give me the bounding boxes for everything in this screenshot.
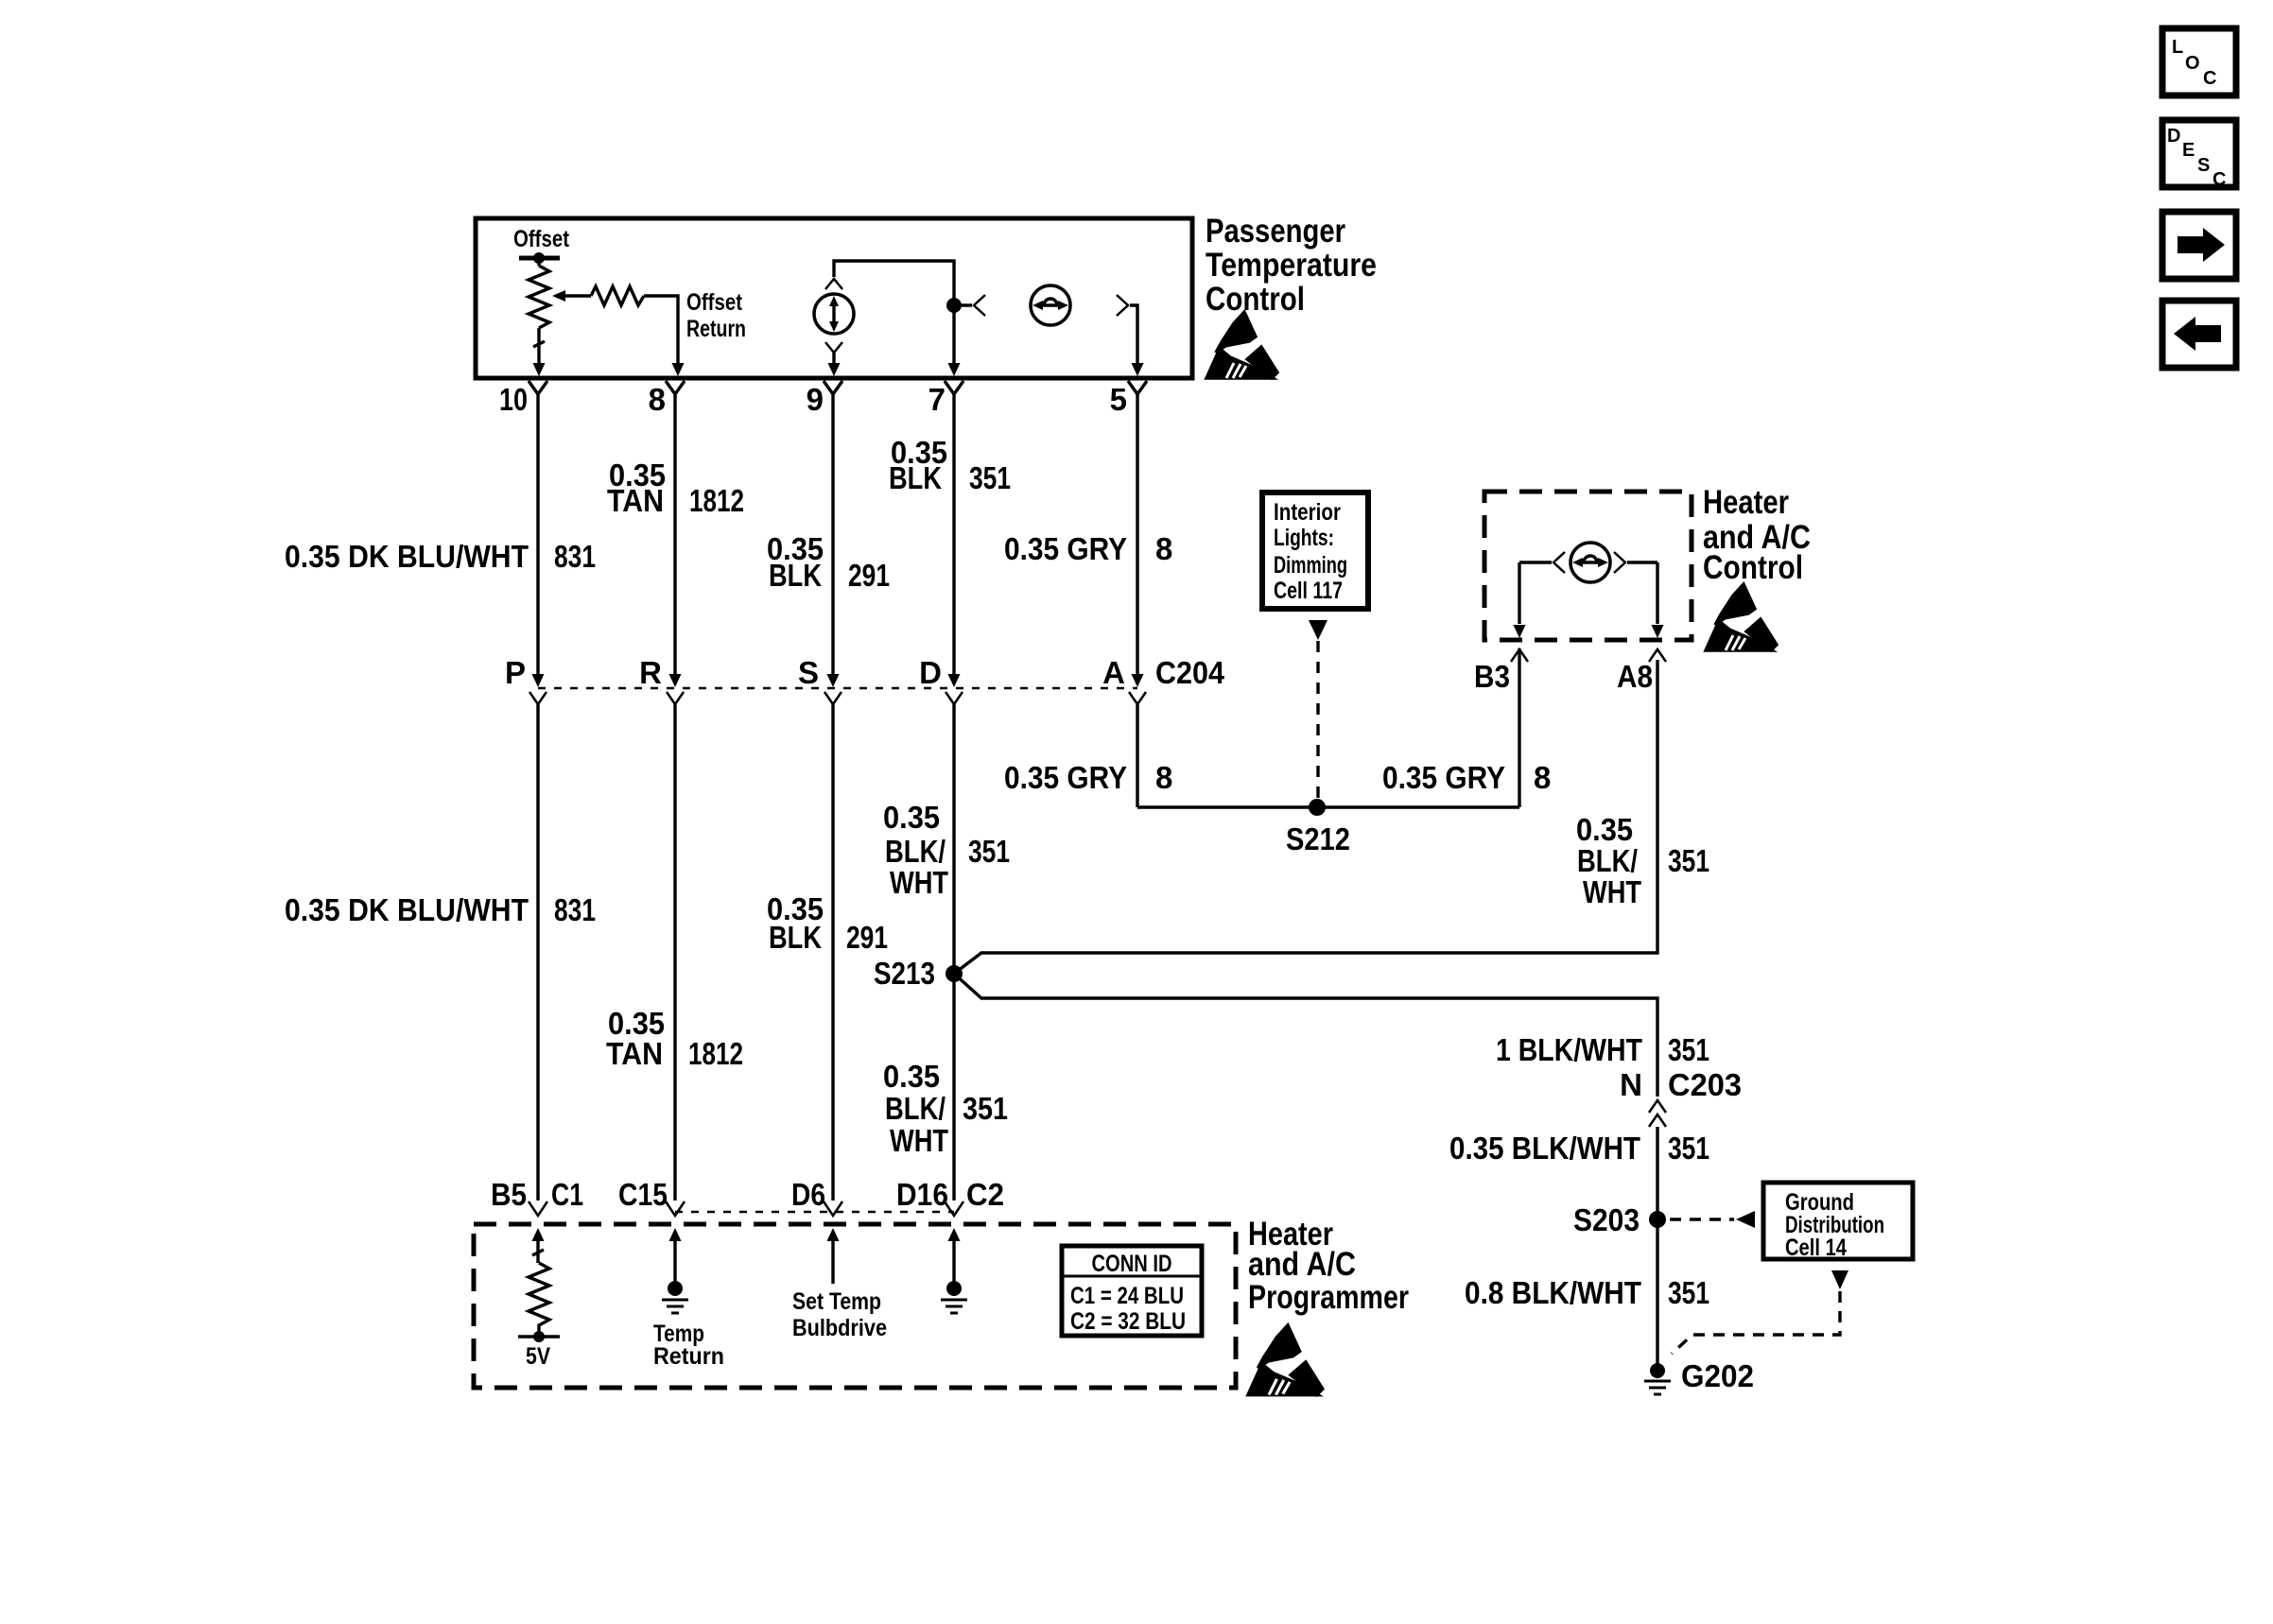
B5 arrow inside programmer box pointing up [532,1228,545,1241]
sensor U2 circle (heater a/c control pot) [1570,543,1610,582]
svg-text:Passenger: Passenger [1206,213,1345,250]
internal bracket wire from lamp to wire7 [834,261,954,292]
wire 7 run C204 to programmer D16 through S213 [952,704,955,1201]
LOC button box [2162,28,2236,95]
programmer pin chevron B5 [529,1201,547,1216]
wire 10 run to C204 [536,394,539,676]
svg-text:0.35: 0.35 [1576,812,1633,847]
sensor U1 circle (passenger temp pot) [1031,285,1070,325]
svg-text:BLK: BLK [769,558,822,593]
svg-text:WHT: WHT [890,1123,948,1158]
svg-text:O: O [2185,53,2200,74]
DESC button box [2162,120,2236,187]
ESD symbol heater and a/c programmer [1248,1325,1323,1395]
wiper arrow of potentiometer [556,294,591,297]
svg-text:10: 10 [499,382,528,417]
arrow pointing left toward S203 [1736,1211,1755,1228]
svg-text:BLK: BLK [769,920,822,955]
B3 arrow inside control box pointing down [1518,562,1520,624]
svg-text:BLK/: BLK/ [1577,843,1638,878]
horizontal double arrow with bump inside sensor U1 [1037,299,1064,305]
svg-text:Offset: Offset [513,226,570,252]
arrowhead wire10 at box bottom [533,363,546,376]
5V bar with node [518,1335,560,1338]
svg-text:5V: 5V [526,1343,550,1370]
svg-text:C1 = 24 BLU: C1 = 24 BLU [1070,1283,1184,1309]
right chevron of sensor U2 [1614,552,1625,573]
svg-text:Return: Return [686,316,746,342]
wire: resistor R2 to corner and down to box bottom [644,296,678,371]
svg-text:Set Temp: Set Temp [792,1288,881,1315]
svg-text:C: C [2212,169,2226,190]
svg-text:B3: B3 [1474,659,1510,694]
programmer pin chevron D6 [824,1201,842,1216]
ESD symbol passenger temperature control [1206,312,1277,378]
svg-text:351: 351 [963,1091,1008,1126]
svg-text:291: 291 [846,920,888,955]
left chevron of sensor U2 [1553,552,1565,573]
svg-text:C15: C15 [618,1177,668,1212]
svg-text:0.35: 0.35 [883,1059,940,1094]
svg-text:C1: C1 [551,1177,583,1212]
svg-text:D: D [919,655,942,690]
vertical double arrow inside lamp [832,302,835,326]
svg-text:8: 8 [649,382,666,417]
svg-text:8: 8 [1155,531,1172,566]
svg-text:A8: A8 [1617,659,1653,694]
wire: bar to resistor R1 [537,258,540,266]
svg-text:0.35 DK BLU/WHT: 0.35 DK BLU/WHT [285,539,529,574]
CONN ID box [1062,1246,1202,1336]
svg-text:G202: G202 [1681,1358,1754,1393]
S212 horizontal wire [1137,805,1519,808]
arrow below ground distribution box pointing down [1831,1270,1848,1289]
dashed drop from interior lights box to S212 [1316,641,1319,802]
B3 riser wire [1518,648,1520,807]
svg-text:P: P [505,655,526,690]
svg-text:351: 351 [1668,1032,1709,1067]
svg-text:0.35 GRY: 0.35 GRY [1382,760,1505,795]
svg-text:Cell 117: Cell 117 [1274,578,1343,604]
svg-text:C203: C203 [1668,1067,1742,1102]
svg-text:1812: 1812 [688,1036,743,1071]
resistor R2 horizontal zigzag (offset return) [591,286,644,305]
ground symbol D16 [946,1281,962,1296]
S213 upper branch diagonal and horizontal to A8 drop [954,660,1657,974]
svg-text:0.35 GRY: 0.35 GRY [1004,531,1127,566]
svg-text:Bulbdrive: Bulbdrive [792,1315,887,1341]
svg-text:BLK/: BLK/ [885,834,946,869]
svg-text:Dimming: Dimming [1274,552,1347,579]
potentiometer top bar with node [519,256,560,261]
C15 arrow inside programmer box pointing up (temp return) [669,1228,682,1241]
svg-text:Cell 14: Cell 14 [1785,1235,1847,1261]
svg-text:S203: S203 [1573,1202,1640,1237]
A8 chevron below control box [1649,649,1666,662]
lamp/actuator circle on wire 9 [814,294,854,334]
svg-text:5: 5 [1110,382,1127,417]
svg-text:Programmer: Programmer [1248,1279,1409,1316]
Heater and A/C Control dashed box [1484,492,1692,640]
svg-text:N: N [1620,1067,1642,1102]
left arrow button box [2162,301,2236,368]
D6 arrow inside programmer box pointing up (set temp bulbdrive) [827,1228,840,1241]
resistor R3 to 5V [529,1263,549,1337]
chevron above lamp [825,279,842,289]
svg-text:9: 9 [807,382,824,417]
svg-text:S: S [798,655,819,690]
arrowhead wire8 at box bottom [672,363,685,376]
svg-text:Control: Control [1206,281,1305,318]
ground symbol temp return [668,1281,683,1296]
svg-text:C2: C2 [966,1177,1004,1212]
svg-text:D: D [2167,126,2180,147]
wire C203 to S203 to G202 [1656,1127,1658,1365]
left arrow icon [2174,317,2221,351]
C204 chevrons below dashed line [529,692,547,704]
dashed path from ground distribution box to G202 [1672,1291,1840,1354]
svg-text:Return: Return [653,1343,724,1370]
connector C204 dashed row [538,687,1137,690]
ground G202 [1650,1363,1665,1378]
svg-text:D6: D6 [791,1177,825,1212]
svg-text:351: 351 [1668,1131,1709,1166]
wire 7 inside box with junction [952,292,955,371]
resistor R1 vertical zigzag (potentiometer element) [529,266,549,328]
svg-text:0.35: 0.35 [883,800,940,835]
splice S203 node [1649,1211,1666,1228]
wire from sensor U1 to pin5 drop [1130,305,1137,371]
C203 in-line connector double chevron [1649,1100,1666,1127]
svg-text:0.35 DK BLU/WHT: 0.35 DK BLU/WHT [285,892,529,927]
pin Y connector wire5 [1128,381,1147,394]
svg-text:8: 8 [1534,760,1551,795]
svg-text:7: 7 [928,382,946,417]
wire B3 to sensor U2 [1519,561,1552,563]
wire 9 from lamp to box bottom [832,353,835,371]
svg-text:C: C [2203,68,2216,89]
wire 7 run to C204 [952,394,955,676]
svg-text:Interior: Interior [1274,499,1341,526]
svg-text:Lights:: Lights: [1274,525,1334,551]
programmer pin chevron D16 [945,1201,963,1216]
svg-text:TAN: TAN [607,483,664,518]
svg-text:WHT: WHT [890,865,948,900]
ESD symbol heater and a/c control [1706,584,1777,650]
Heater and A/C Programmer dashed box [474,1224,1236,1388]
S213 lower branch diagonal and horizontal to C203 drop [954,974,1657,1097]
svg-text:TAN: TAN [606,1036,663,1071]
pin Y connector wire9 [824,381,842,394]
svg-text:831: 831 [554,892,596,927]
svg-text:R: R [639,655,662,690]
svg-text:E: E [2182,140,2195,161]
D16 arrow inside programmer box pointing up [948,1228,961,1241]
S203 dashed reference line [1670,1218,1734,1220]
svg-text:S213: S213 [874,956,935,991]
right arrow icon [2178,228,2225,262]
A8 arrow inside control box pointing down [1656,562,1658,624]
wire 10 run C204 to programmer B5 [536,704,539,1201]
wire 8 run C204 to programmer C15 [673,704,676,1201]
svg-text:BLK/: BLK/ [885,1091,946,1126]
chevron below lamp [825,342,842,353]
svg-text:BLK: BLK [889,460,942,495]
wire 5 drop below C204 to S212 line [1136,704,1138,807]
arrowhead wire5 at box bottom [1132,363,1144,376]
wire 8 run to C204 [673,394,676,676]
wire: resistor to box bottom with tick [533,328,545,371]
svg-text:0.35 GRY: 0.35 GRY [1004,760,1127,795]
svg-text:WHT: WHT [1583,874,1641,909]
left chevron of sensor U1 [974,295,985,316]
horizontal double arrow with bump inside sensor U2 [1577,556,1604,562]
wire 9 run C204 to programmer D6 [831,704,834,1201]
svg-text:1 BLK/WHT: 1 BLK/WHT [1496,1032,1642,1067]
svg-text:351: 351 [969,460,1011,495]
Passenger Temperature Control module box [476,218,1192,378]
splice S212 node [1309,799,1326,816]
svg-text:A: A [1102,655,1125,690]
svg-text:0.35 BLK/WHT: 0.35 BLK/WHT [1449,1131,1640,1166]
B3 chevron below control box [1511,649,1528,662]
programmer pin chevron C15 [666,1201,685,1216]
junction node on wire 7 [946,298,962,313]
svg-text:Heater: Heater [1703,484,1789,521]
right chevron of sensor U1 [1117,295,1128,316]
svg-text:Control: Control [1703,549,1803,586]
svg-text:351: 351 [1668,843,1709,878]
arrow below interior lights box [1309,620,1327,640]
svg-text:S212: S212 [1286,821,1350,856]
svg-text:291: 291 [848,558,890,593]
pin Y connector wire8 [666,381,685,394]
wire 5 run to C204 [1136,394,1138,676]
svg-text:Offset: Offset [686,289,743,316]
splice S213 node [946,965,963,982]
wire 9 run to C204 [831,394,834,676]
arrowhead wire9 at box bottom [828,363,841,376]
svg-text:L: L [2172,37,2183,58]
Ground Distribution Cell 14 box [1763,1183,1913,1259]
svg-text:351: 351 [968,834,1010,869]
wire from junction to sensor U1 [954,303,972,306]
connector C1/C2 thin dashed row [675,1211,954,1214]
svg-text:1812: 1812 [689,483,744,518]
svg-text:831: 831 [554,539,596,574]
pin Y connector wire10 [529,381,547,394]
svg-text:D16: D16 [896,1177,948,1212]
pin Y connector wire7 [945,381,963,394]
wire sensor U2 to A8 [1627,561,1657,563]
svg-text:C2 = 32 BLU: C2 = 32 BLU [1070,1308,1186,1335]
Interior Lights Dimming box [1262,492,1368,609]
svg-text:8: 8 [1155,760,1172,795]
C204 pin arrows above dashed line [532,674,545,687]
svg-text:and A/C: and A/C [1248,1246,1356,1283]
svg-text:0.8 BLK/WHT: 0.8 BLK/WHT [1465,1275,1641,1310]
right arrow button box [2162,212,2236,279]
svg-text:B5: B5 [491,1177,527,1212]
svg-text:C204: C204 [1155,655,1225,690]
svg-text:351: 351 [1668,1275,1709,1310]
svg-text:Temperature: Temperature [1206,247,1377,284]
svg-text:CONN ID: CONN ID [1092,1251,1172,1277]
svg-text:S: S [2197,155,2210,176]
